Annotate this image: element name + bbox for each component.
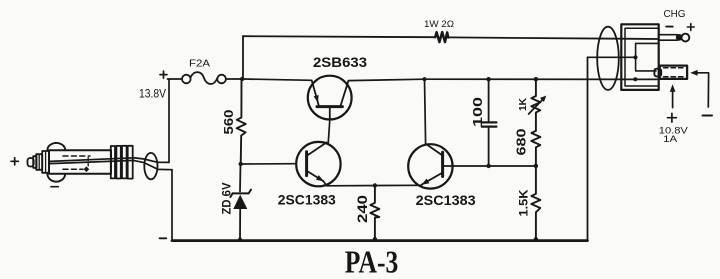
label + at pin xyxy=(687,24,694,31)
pin terminal lines xyxy=(659,35,678,41)
transistor Q3 2SC1383 (right) xyxy=(408,144,452,189)
label - at bottom rail left xyxy=(160,237,167,239)
wire right vertical return xyxy=(587,57,589,240)
svg-text:1.5K: 1.5K xyxy=(517,189,531,216)
potentiometer 1K xyxy=(531,79,540,131)
wire base of Q2 xyxy=(241,163,297,165)
svg-text:1W 2Ω: 1W 2Ω xyxy=(424,19,454,29)
plug end ring 3 xyxy=(122,146,127,179)
wire vertical from top rail to fuse junction xyxy=(242,36,244,79)
svg-text:680: 680 xyxy=(515,128,529,155)
node 1.5K bottom xyxy=(534,237,538,241)
node Q3 collector at rail xyxy=(422,77,426,81)
capacitor 100 xyxy=(488,79,490,166)
resistor 560 xyxy=(237,79,246,164)
svg-text:2SC1383: 2SC1383 xyxy=(416,192,476,208)
plug tip collar xyxy=(33,156,36,168)
node cap top xyxy=(486,77,490,81)
node zener at bottom rail xyxy=(238,238,242,242)
plug end ring 4 xyxy=(128,146,133,179)
svg-text:PA-3: PA-3 xyxy=(345,245,399,279)
label - at pin xyxy=(666,26,672,28)
plug nose step 1 xyxy=(36,154,42,170)
wire right vertical (- lead down) xyxy=(171,170,173,240)
wire Q1 base to Q2 collector xyxy=(328,120,330,143)
wire Q3 base node xyxy=(443,165,536,167)
resistor 1W 2ohm zigzag xyxy=(435,32,448,42)
wire junction to Q1 emitter xyxy=(243,79,312,80)
svg-text:2SC1383: 2SC1383 xyxy=(278,191,336,207)
node 240 bottom xyxy=(373,237,377,241)
wire fuse to junction xyxy=(226,78,243,80)
node 1K top xyxy=(534,77,538,81)
node base of Q2 / divider xyxy=(239,162,243,166)
node cap bottom xyxy=(486,164,490,168)
plug inner dashed vertical xyxy=(87,158,89,167)
plug end ring 2 xyxy=(116,146,120,179)
transistor Q1 2SB633 xyxy=(308,76,352,120)
connector block cavity xyxy=(636,43,658,71)
label + at 13.8V input xyxy=(160,71,167,78)
plug top contact bump xyxy=(47,143,65,150)
label + at plug tip xyxy=(11,158,18,165)
plug end ring 1 xyxy=(111,146,115,178)
plug bottom contact bump xyxy=(47,174,65,182)
resistor 1.5K xyxy=(531,166,540,240)
svg-text:2SB633: 2SB633 xyxy=(313,54,367,70)
plug tip nub xyxy=(28,158,34,167)
node positive wire in block xyxy=(633,77,637,81)
wire negative into connector block xyxy=(588,56,636,58)
label - below plug xyxy=(51,186,58,188)
wire plug top lead through cable xyxy=(133,158,169,163)
wire plug bottom lead through cable xyxy=(133,160,172,169)
label - probe xyxy=(703,115,713,117)
plug center conductor lines xyxy=(50,158,134,164)
svg-text:1A: 1A xyxy=(663,133,678,144)
connector block inner xyxy=(625,28,658,86)
wire + to fuse xyxy=(168,78,183,80)
wire bottom rail xyxy=(172,239,588,242)
wire left vertical (+ lead from plug) xyxy=(168,79,170,162)
barrel jack dashed top xyxy=(664,67,685,69)
plug inner contact diamond xyxy=(84,166,90,172)
plug nose step 2 xyxy=(42,151,49,173)
wire Q3 collector up to output rail xyxy=(425,79,426,144)
svg-text:240: 240 xyxy=(354,195,370,223)
pin terminal ring xyxy=(682,34,690,42)
barrel jack dashed bottom xyxy=(664,76,685,78)
svg-text:560: 560 xyxy=(221,110,236,135)
barrel jack tip xyxy=(654,69,661,77)
plug inner dashed bottom xyxy=(63,168,83,170)
wire Q1 collector to output xyxy=(348,79,657,80)
zener diode ZD 6V xyxy=(239,164,242,240)
arrow into barrel jack xyxy=(697,73,709,107)
svg-text:100: 100 xyxy=(471,97,485,127)
node junction fuse/560/B633 xyxy=(240,77,244,81)
svg-text:CHG: CHG xyxy=(664,9,686,20)
pin terminal ball xyxy=(676,34,683,41)
plug nose knurl lines xyxy=(39,151,45,173)
node 240 top xyxy=(373,183,377,187)
cable ellipse left xyxy=(144,153,157,179)
svg-text:F2A: F2A xyxy=(189,58,210,69)
connector block outer xyxy=(621,24,658,90)
wire top rail left segment xyxy=(243,36,435,37)
fuse F2A xyxy=(182,72,226,84)
barrel jack sleeve xyxy=(660,66,687,79)
up arrow to barrel jack xyxy=(672,90,674,108)
plug barrel body xyxy=(49,150,111,174)
resistor 680 xyxy=(531,131,540,166)
label + probe xyxy=(668,113,677,122)
node divider at base wire xyxy=(534,164,538,168)
wire top rail right segment xyxy=(448,37,658,39)
wire Q2 emitter to Q3 emitter xyxy=(323,181,421,186)
svg-text:ZD 6V: ZD 6V xyxy=(220,183,234,215)
cable ellipse right xyxy=(597,27,619,90)
plug inner dashed top xyxy=(63,155,90,157)
transistor Q2 2SC1383 (left) xyxy=(296,142,340,186)
node negative wire in block xyxy=(634,55,638,59)
svg-text:1K: 1K xyxy=(517,98,529,111)
resistor 240 xyxy=(370,186,379,241)
svg-text:13.8V: 13.8V xyxy=(139,89,166,101)
